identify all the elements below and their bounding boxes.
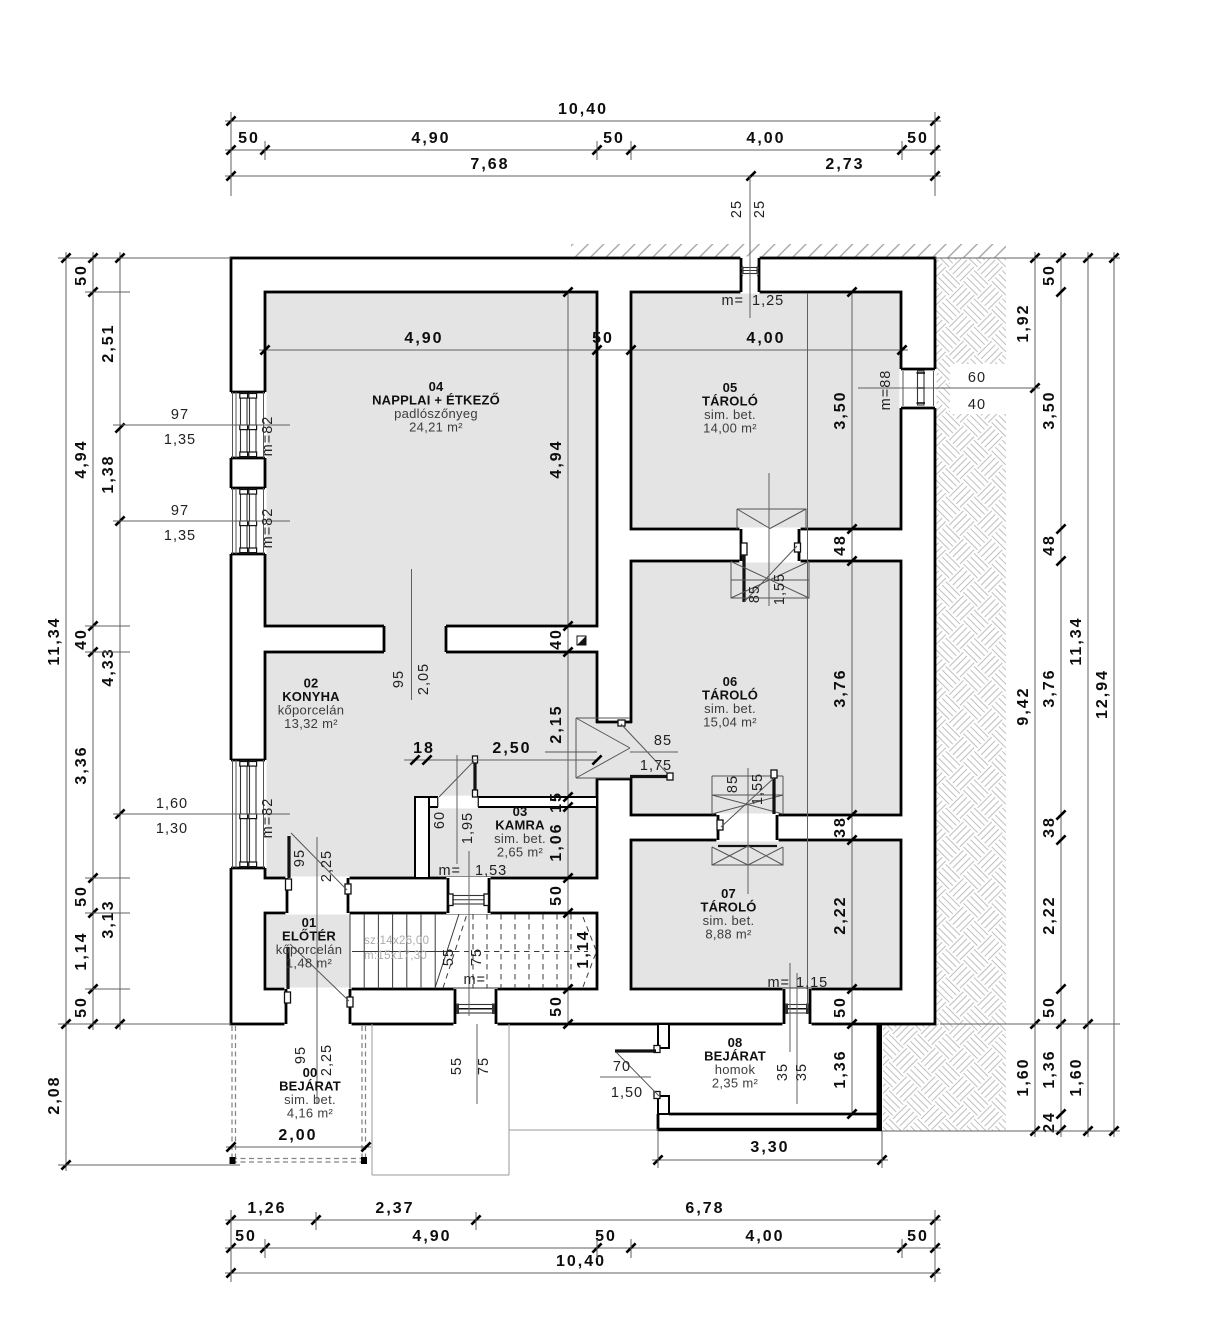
svg-text:1,60: 1,60 <box>1015 1057 1032 1096</box>
bottom dim chain 10,40 <box>225 1272 941 1274</box>
svg-text:85: 85 <box>747 585 763 603</box>
svg-text:38: 38 <box>832 816 849 838</box>
svg-text:1,75: 1,75 <box>640 758 672 774</box>
porch dim 2,00 <box>226 1146 371 1148</box>
svg-text:35: 35 <box>775 1063 791 1081</box>
svg-text:sz:14x26,00: sz:14x26,00 <box>364 935 429 947</box>
svg-text:4,00: 4,00 <box>745 1228 784 1245</box>
svg-text:1,53: 1,53 <box>475 863 507 879</box>
svg-text:50: 50 <box>238 130 260 147</box>
svg-text:85: 85 <box>725 775 741 793</box>
svg-text:55: 55 <box>449 1057 465 1075</box>
svg-text:50: 50 <box>1041 996 1058 1018</box>
svg-text:95: 95 <box>293 1046 309 1064</box>
stairwell box <box>265 913 597 989</box>
left dim chain 50/4,94/40/3,36/50/1,14/50 <box>92 252 94 1030</box>
top dim chain 7,68/2,73 <box>225 175 941 177</box>
svg-text:50: 50 <box>1041 264 1058 286</box>
svg-text:1,14: 1,14 <box>73 931 90 970</box>
svg-text:70: 70 <box>613 1059 631 1075</box>
svg-text:2,51: 2,51 <box>100 323 117 362</box>
svg-text:50: 50 <box>73 264 90 286</box>
window W1 97/135 frames <box>241 393 248 457</box>
top dim chain 50/4,90/50/4,00/50 <box>225 149 941 151</box>
left dim chain 11,34/2,08 <box>65 252 67 1171</box>
svg-text:3,76: 3,76 <box>832 668 849 707</box>
door D4 konyha-eloter opening <box>285 877 349 915</box>
svg-text:1,50: 1,50 <box>611 1085 643 1101</box>
svg-text:10,40: 10,40 <box>556 1253 606 1270</box>
kamra top wall left part <box>429 797 438 807</box>
entrance 08 left wall lower part <box>658 1096 669 1114</box>
door D5 entrance to eloter opening <box>284 988 351 1026</box>
svg-text:2,37: 2,37 <box>375 1200 414 1217</box>
svg-text:4,00: 4,00 <box>746 330 785 347</box>
svg-text:50: 50 <box>592 330 614 347</box>
room 02 konyha fill <box>265 652 597 878</box>
svg-text:1,15: 1,15 <box>796 975 828 991</box>
stair treads <box>349 914 351 989</box>
window W8 frame <box>450 896 487 905</box>
svg-text:10,40: 10,40 <box>558 101 608 118</box>
door D3 kamra opening <box>438 796 478 809</box>
svg-text:2,22: 2,22 <box>1041 895 1058 934</box>
svg-text:60: 60 <box>432 811 448 829</box>
stair break line <box>435 914 459 988</box>
svg-text:2,08: 2,08 <box>46 1075 63 1114</box>
svg-text:3,50: 3,50 <box>1041 390 1058 429</box>
porch 00 dashed outline <box>231 1026 233 1163</box>
window W3 160/130 frames <box>241 761 248 867</box>
svg-text:97: 97 <box>171 503 189 519</box>
nappali opening dim 95/2,05 <box>411 569 413 700</box>
window W7 stairs-south frame <box>457 1005 494 1014</box>
porch dim 55/75 <box>476 1024 478 1104</box>
svg-text:2,00: 2,00 <box>278 1127 317 1144</box>
door D6 between 05 and 06 opening <box>739 528 800 563</box>
room 06 tarolo fill <box>631 561 901 815</box>
svg-text:85: 85 <box>654 733 672 749</box>
door D5 leaf <box>285 992 291 1003</box>
svg-text:3,50: 3,50 <box>832 390 849 429</box>
svg-text:35: 35 <box>794 1063 810 1081</box>
svg-text:1,60: 1,60 <box>1068 1057 1085 1096</box>
svg-text:50: 50 <box>832 996 849 1018</box>
svg-text:12,94: 12,94 <box>1094 669 1111 719</box>
svg-text:4,33: 4,33 <box>100 647 117 686</box>
svg-text:50: 50 <box>907 1228 929 1245</box>
door D7 leaf and swing <box>771 770 777 778</box>
svg-text:m=82: m=82 <box>260 798 276 839</box>
svg-text:24,21 m²: 24,21 m² <box>409 420 463 435</box>
svg-text:50: 50 <box>235 1228 257 1245</box>
svg-text:25: 25 <box>729 200 745 218</box>
svg-text:38: 38 <box>1041 816 1058 838</box>
svg-text:3,36: 3,36 <box>73 745 90 784</box>
stair direction chevron dashed <box>583 917 597 952</box>
top dim chain 10,40 <box>225 120 941 122</box>
svg-text:m=: m= <box>767 975 790 991</box>
svg-text:15,04 m²: 15,04 m² <box>703 715 757 730</box>
svg-text:m=: m= <box>438 863 461 879</box>
svg-text:1,26: 1,26 <box>247 1200 286 1217</box>
svg-text:13,32 m²: 13,32 m² <box>284 716 338 731</box>
doors D4/D5 dim 95/2,25 <box>316 837 318 1104</box>
svg-text:1,06: 1,06 <box>548 822 565 861</box>
window W6 m=1,15 opening <box>782 988 811 1025</box>
svg-text:1,35: 1,35 <box>164 528 196 544</box>
svg-text:1,36: 1,36 <box>832 1049 849 1088</box>
door D7 between 06 and 07 opening <box>716 814 778 842</box>
bottom dim chain 1,26/2,37/6,78 <box>225 1219 941 1221</box>
entrance 08 right wall <box>877 1024 883 1130</box>
svg-text:15: 15 <box>548 791 565 813</box>
window W6 dim 35/35 and m=1,15 <box>789 963 791 1052</box>
window W6 m=1,15 frame <box>786 1005 808 1014</box>
door D6 leaf and swing <box>741 543 747 555</box>
door D6 step symbol in room05 <box>737 509 806 529</box>
svg-text:2,25: 2,25 <box>319 850 335 882</box>
svg-text:1,60: 1,60 <box>156 796 188 812</box>
door D6 dim 85/1,55 <box>768 473 770 606</box>
svg-text:1,55: 1,55 <box>772 573 788 605</box>
svg-text:m=82: m=82 <box>260 508 276 549</box>
svg-text:1,25: 1,25 <box>752 293 784 309</box>
svg-text:1,36: 1,36 <box>1041 1049 1058 1088</box>
kamra left wall <box>415 797 429 878</box>
svg-text:7,68: 7,68 <box>470 156 509 173</box>
svg-text:25: 25 <box>752 200 768 218</box>
kamra height m=1,53 <box>468 851 470 1016</box>
svg-text:60: 60 <box>968 370 986 386</box>
window W3 160/130 opening <box>229 760 266 868</box>
entrance 08 slab edge <box>658 1128 882 1132</box>
svg-text:4,00: 4,00 <box>746 130 785 147</box>
door D7 dim 85/1,55 <box>747 768 749 894</box>
svg-text:50: 50 <box>603 130 625 147</box>
window W4 right wall opening <box>899 369 936 408</box>
svg-text:11,34: 11,34 <box>1068 616 1085 665</box>
window W2 97/135 opening <box>229 488 266 554</box>
svg-text:97: 97 <box>171 407 189 423</box>
svg-text:4,90: 4,90 <box>404 330 443 347</box>
room 07 tarolo fill <box>631 840 901 989</box>
svg-text:m=: m= <box>463 972 486 988</box>
right dim chain 50/3,50/48/3,76/38/2,22/50/1,36/24 <box>1060 252 1062 1137</box>
room 01 eloter fill <box>266 914 350 987</box>
entrance 08 interior bottom edge <box>669 1113 877 1116</box>
door D2 konyha-tarolo06 leaf/swing/funnel <box>576 718 630 778</box>
svg-text:95: 95 <box>391 670 407 688</box>
left dim chain 2,51/1,38/4,33/3,13 <box>119 252 121 1030</box>
svg-text:1,30: 1,30 <box>156 821 188 837</box>
window W4 dim 60/40 <box>950 364 1008 414</box>
svg-text:9,42: 9,42 <box>1015 686 1032 725</box>
svg-text:1,14: 1,14 <box>575 929 592 968</box>
svg-text:14,00 m²: 14,00 m² <box>703 421 757 436</box>
svg-text:1,38: 1,38 <box>100 454 117 493</box>
window W1 97/135 opening <box>229 392 266 458</box>
svg-text:8,88 m²: 8,88 m² <box>705 927 752 942</box>
door D3 leaf and swing <box>473 762 476 795</box>
stair walk line <box>352 951 454 953</box>
svg-text:m:15x17,30: m:15x17,30 <box>364 950 427 962</box>
svg-text:50: 50 <box>73 885 90 907</box>
porch 00 slab thin outline <box>371 1024 373 1175</box>
kamra top wall right part <box>478 797 597 807</box>
svg-text:4,16 m²: 4,16 m² <box>287 1106 334 1121</box>
svg-text:1,92: 1,92 <box>1015 303 1032 342</box>
bottom extension lines <box>230 1210 232 1282</box>
svg-text:m=: m= <box>721 293 744 309</box>
right dim chain 11,34/1,60 <box>1087 252 1089 1137</box>
svg-text:50: 50 <box>907 130 929 147</box>
svg-text:1,55: 1,55 <box>750 773 766 805</box>
room 05 tarolo fill <box>631 292 901 529</box>
svg-text:3,13: 3,13 <box>100 899 117 938</box>
svg-text:6,78: 6,78 <box>685 1200 724 1217</box>
svg-text:4,90: 4,90 <box>412 1228 451 1245</box>
svg-text:18: 18 <box>413 740 435 757</box>
right dim chain 1,92/9,42/1,60 <box>1034 252 1036 1137</box>
svg-text:m=88: m=88 <box>878 370 894 411</box>
svg-text:40: 40 <box>968 397 986 413</box>
window W2 97/135 frames <box>241 489 248 553</box>
porch 00 posts <box>230 1157 236 1164</box>
right dim chain 12,94 <box>1113 252 1115 1137</box>
bottom dim 3,30 <box>652 1159 888 1161</box>
svg-text:50: 50 <box>73 996 90 1018</box>
window W3 dim 1,60/1,30 <box>113 813 290 815</box>
bottom dim chain 50/4,90/50/4,00/50 <box>225 1247 941 1249</box>
svg-text:4,90: 4,90 <box>411 130 450 147</box>
kamra dim 18/2,50 <box>404 759 598 761</box>
entrance 08 left wall upper stub <box>658 1024 669 1048</box>
svg-text:2,22: 2,22 <box>832 895 849 934</box>
outer wall of house <box>231 258 935 1024</box>
window W1 dim 97/1,35 <box>113 424 290 426</box>
door D2 dim 85/1,75 <box>545 751 597 753</box>
top extension lines <box>230 112 232 196</box>
hatch strip above top wall (neighbour) <box>571 244 1006 258</box>
door D7 step symbol in room07 <box>718 845 777 847</box>
hatch strip right of building (neighbour) <box>935 258 1006 1024</box>
door D6 step symbol in room06 <box>731 562 809 599</box>
svg-text:24: 24 <box>1041 1111 1058 1133</box>
svg-text:50: 50 <box>548 884 565 906</box>
svg-text:11,34: 11,34 <box>46 616 63 665</box>
svg-text:2,05: 2,05 <box>416 663 432 695</box>
svg-text:2,73: 2,73 <box>825 156 864 173</box>
svg-text:3,30: 3,30 <box>750 1139 789 1156</box>
svg-text:1,95: 1,95 <box>460 812 476 844</box>
svg-text:1,48 m²: 1,48 m² <box>286 956 333 971</box>
window W2 dim 97/1,35 <box>113 520 290 522</box>
svg-text:75: 75 <box>469 948 485 966</box>
opening nappali-konyha <box>384 624 446 653</box>
svg-text:2,25: 2,25 <box>319 1044 335 1076</box>
door D7 step symbol in room06 <box>712 776 783 814</box>
door D8 dim 70/1,50 <box>600 1076 651 1078</box>
svg-text:2,35 m²: 2,35 m² <box>712 1076 759 1091</box>
svg-text:48: 48 <box>832 534 849 556</box>
door D4 leaf <box>286 879 292 890</box>
svg-text:50: 50 <box>548 995 565 1017</box>
hatch block bottom right of entrance <box>883 1024 1006 1131</box>
window W8 above stairs opening <box>446 877 490 914</box>
svg-text:1,35: 1,35 <box>164 432 196 448</box>
floor level marker <box>577 636 586 645</box>
svg-text:2,50: 2,50 <box>492 740 531 757</box>
left extension lines <box>58 257 231 259</box>
svg-text:75: 75 <box>476 1057 492 1075</box>
stair treads dashed (above cut) <box>472 914 474 989</box>
svg-text:95: 95 <box>292 849 308 867</box>
svg-text:4,94: 4,94 <box>548 439 565 478</box>
right extension lines <box>935 257 1120 259</box>
room 04 nappali fill <box>265 292 597 626</box>
svg-text:50: 50 <box>595 1228 617 1245</box>
svg-text:48: 48 <box>1041 534 1058 556</box>
interior top dim 4,90/50/4,00 <box>259 349 908 351</box>
opening konyha-tarolo06 D2 <box>595 723 632 778</box>
top small window W5 m=1,25 <box>740 256 759 293</box>
room 03 kamra fill <box>431 809 596 877</box>
svg-text:40: 40 <box>73 628 90 650</box>
svg-text:2,65 m²: 2,65 m² <box>497 845 544 860</box>
interior right chain x852 <box>851 292 853 1114</box>
svg-text:3,76: 3,76 <box>1041 668 1058 707</box>
kamra door dim 60/1,95 <box>456 755 458 864</box>
svg-text:40: 40 <box>548 628 565 650</box>
window W4 frame <box>918 371 925 405</box>
svg-text:4,94: 4,94 <box>73 439 90 478</box>
window W7 stairs-south opening <box>453 988 497 1025</box>
interior left chain x568 <box>567 292 569 1024</box>
entrance 08 door D8 leaf <box>654 1046 660 1053</box>
svg-text:2,15: 2,15 <box>548 704 565 743</box>
svg-text:55: 55 <box>441 948 457 966</box>
svg-text:m=82: m=82 <box>260 416 276 457</box>
